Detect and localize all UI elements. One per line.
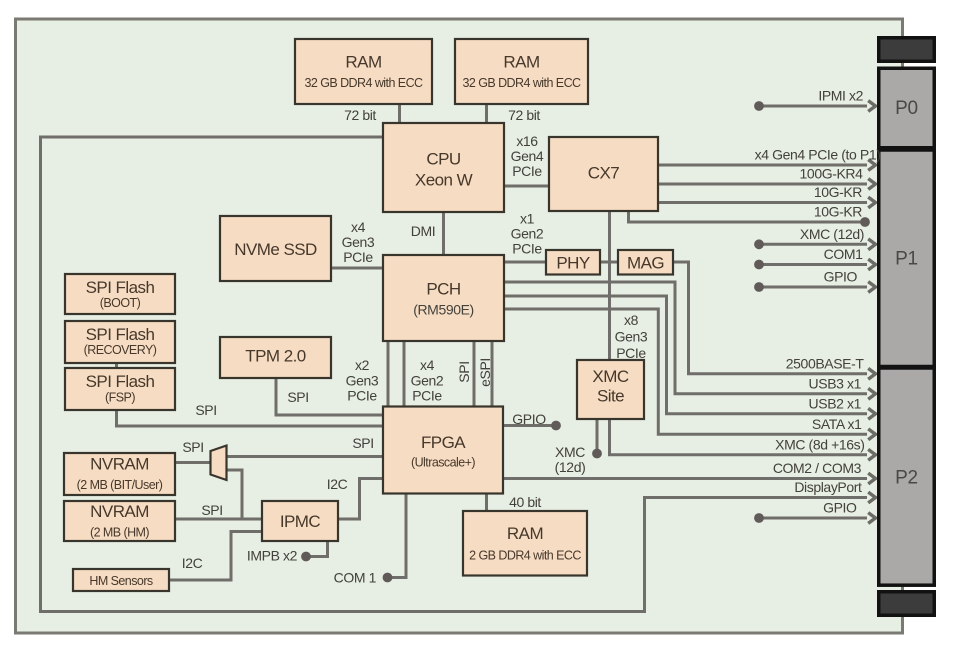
svg-text:RAM: RAM [507, 524, 543, 543]
svg-text:USB3 x1: USB3 x1 [809, 376, 862, 392]
svg-text:IPMC: IPMC [280, 512, 321, 531]
svg-text:Gen2: Gen2 [511, 226, 544, 242]
svg-text:SPI: SPI [287, 389, 308, 405]
svg-text:32 GB DDR4 with ECC: 32 GB DDR4 with ECC [462, 76, 581, 90]
svg-text:NVRAM: NVRAM [90, 502, 149, 521]
svg-text:Gen2: Gen2 [411, 373, 444, 389]
svg-text:XMC: XMC [592, 367, 628, 386]
svg-text:GPIO: GPIO [512, 411, 546, 427]
svg-text:40 bit: 40 bit [509, 494, 541, 510]
svg-text:RAM: RAM [345, 53, 381, 72]
svg-text:x4: x4 [351, 219, 366, 235]
svg-text:Gen3: Gen3 [342, 234, 375, 250]
svg-text:PCIe: PCIe [412, 388, 442, 404]
svg-text:XMC (8d +16s): XMC (8d +16s) [775, 437, 864, 453]
svg-text:PHY: PHY [556, 254, 590, 273]
svg-text:(2 MB (BIT/User): (2 MB (BIT/User) [77, 478, 163, 492]
svg-text:IMPB x2: IMPB x2 [247, 548, 298, 564]
svg-text:eSPI: eSPI [477, 358, 493, 387]
svg-text:COM 1: COM 1 [334, 570, 377, 586]
svg-text:SPI: SPI [201, 502, 222, 518]
svg-text:P2: P2 [895, 468, 918, 489]
svg-text:USB2 x1: USB2 x1 [809, 396, 862, 412]
svg-text:PCIe: PCIe [347, 388, 377, 404]
svg-text:MAG: MAG [627, 254, 664, 273]
svg-text:P1: P1 [895, 249, 918, 270]
svg-text:(RM590E): (RM590E) [413, 302, 474, 318]
svg-text:PCIe: PCIe [512, 163, 542, 179]
svg-text:PCIe: PCIe [343, 249, 373, 265]
svg-text:NVMe SSD: NVMe SSD [234, 240, 317, 259]
svg-text:DMI: DMI [411, 223, 435, 239]
svg-text:32 GB DDR4 with ECC: 32 GB DDR4 with ECC [304, 76, 423, 90]
svg-text:(FSP): (FSP) [105, 391, 135, 405]
svg-text:TPM 2.0: TPM 2.0 [245, 347, 305, 366]
svg-text:2 GB DDR4 with ECC: 2 GB DDR4 with ECC [469, 549, 581, 563]
svg-text:XMC (12d): XMC (12d) [800, 226, 864, 242]
svg-text:2500BASE-T: 2500BASE-T [786, 356, 865, 372]
svg-text:COM1: COM1 [824, 246, 863, 262]
svg-text:CX7: CX7 [588, 164, 620, 183]
svg-text:x16: x16 [516, 133, 538, 149]
svg-text:P0: P0 [895, 98, 918, 119]
svg-text:XMC: XMC [555, 444, 585, 460]
svg-text:HM Sensors: HM Sensors [89, 574, 153, 588]
svg-text:SATA x1: SATA x1 [812, 416, 862, 432]
svg-text:SPI: SPI [182, 439, 203, 455]
svg-text:SPI Flash: SPI Flash [86, 325, 155, 344]
svg-text:(2 MB (HM): (2 MB (HM) [90, 526, 149, 540]
svg-text:GPIO: GPIO [824, 269, 858, 285]
svg-text:SPI Flash: SPI Flash [86, 278, 155, 297]
svg-text:Gen3: Gen3 [615, 329, 648, 345]
svg-text:(BOOT): (BOOT) [100, 296, 141, 310]
svg-text:10G-KR: 10G-KR [814, 184, 862, 200]
svg-text:GPIO: GPIO [823, 500, 857, 516]
svg-text:PCH: PCH [426, 280, 460, 299]
svg-text:Gen4: Gen4 [511, 148, 544, 164]
svg-text:(Ultrascale+): (Ultrascale+) [411, 456, 475, 470]
svg-text:DisplayPort: DisplayPort [794, 479, 862, 495]
svg-text:FPGA: FPGA [421, 433, 466, 452]
svg-text:I2C: I2C [327, 476, 348, 492]
svg-text:Site: Site [597, 387, 624, 406]
svg-text:(12d): (12d) [555, 459, 586, 475]
svg-text:72 bit: 72 bit [508, 107, 540, 123]
svg-text:x2: x2 [355, 357, 370, 373]
svg-text:I2C: I2C [182, 555, 203, 571]
svg-text:Xeon W: Xeon W [415, 171, 473, 190]
svg-text:SPI: SPI [195, 402, 216, 418]
svg-text:SPI: SPI [352, 435, 373, 451]
svg-text:x1: x1 [520, 211, 535, 227]
svg-text:x4: x4 [420, 357, 435, 373]
svg-text:Gen3: Gen3 [346, 373, 379, 389]
svg-text:(RECOVERY): (RECOVERY) [84, 343, 157, 357]
svg-text:10G-KR: 10G-KR [814, 204, 862, 220]
svg-text:72 bit: 72 bit [344, 107, 376, 123]
svg-text:PCIe: PCIe [512, 241, 542, 257]
svg-text:x4 Gen4 PCIe (to P1): x4 Gen4 PCIe (to P1) [755, 147, 881, 163]
svg-text:RAM: RAM [503, 53, 539, 72]
svg-text:CPU: CPU [426, 150, 460, 169]
svg-text:SPI: SPI [456, 361, 472, 382]
svg-text:SPI Flash: SPI Flash [86, 372, 155, 391]
svg-text:100G-KR4: 100G-KR4 [800, 166, 864, 182]
svg-text:PCIe: PCIe [616, 345, 646, 361]
svg-text:NVRAM: NVRAM [90, 455, 149, 474]
svg-text:IPMI x2: IPMI x2 [818, 88, 863, 104]
svg-text:x8: x8 [624, 312, 639, 328]
svg-text:COM2 / COM3: COM2 / COM3 [773, 460, 862, 476]
